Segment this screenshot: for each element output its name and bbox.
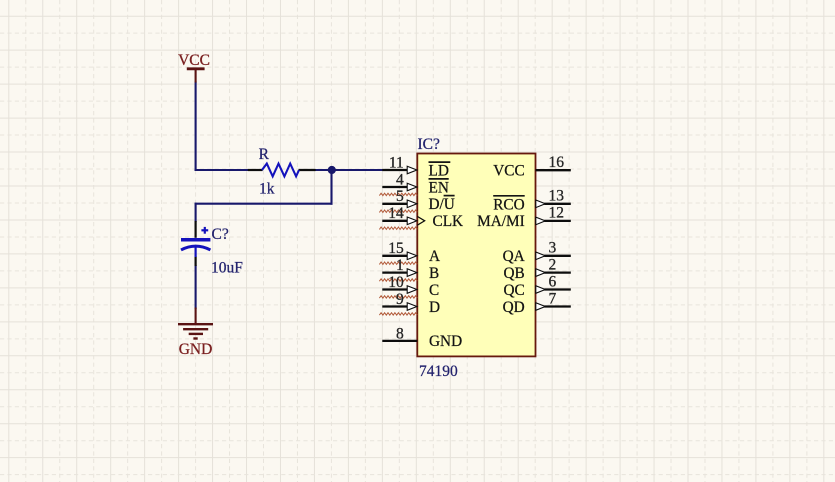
svg-text:10uF: 10uF — [211, 259, 243, 276]
svg-text:15: 15 — [388, 240, 404, 257]
svg-text:4: 4 — [396, 171, 404, 188]
svg-text:2: 2 — [549, 256, 557, 273]
svg-text:12: 12 — [549, 205, 565, 222]
svg-text:LD: LD — [429, 162, 449, 179]
svg-text:QD: QD — [503, 299, 525, 316]
svg-text:1: 1 — [396, 257, 404, 274]
svg-text:VCC: VCC — [178, 52, 210, 69]
svg-text:GND: GND — [179, 341, 213, 358]
svg-text:C?: C? — [212, 226, 229, 243]
svg-text:10: 10 — [388, 274, 404, 291]
svg-text:D: D — [429, 299, 440, 316]
svg-text:11: 11 — [389, 154, 404, 171]
svg-text:QA: QA — [503, 248, 525, 265]
svg-text:5: 5 — [396, 188, 404, 205]
svg-text:MA/MI: MA/MI — [477, 213, 525, 230]
svg-text:6: 6 — [549, 273, 557, 290]
svg-text:74190: 74190 — [419, 363, 458, 380]
svg-text:GND: GND — [429, 333, 462, 350]
svg-text:QB: QB — [503, 265, 524, 282]
svg-text:RCO: RCO — [493, 196, 524, 213]
svg-text:7: 7 — [549, 290, 557, 307]
svg-text:A: A — [429, 248, 440, 265]
svg-text:R: R — [259, 146, 270, 163]
svg-text:EN: EN — [429, 179, 449, 196]
svg-text:8: 8 — [396, 325, 404, 342]
svg-text:D/U: D/U — [429, 196, 455, 213]
svg-text:C: C — [429, 282, 439, 299]
svg-text:CLK: CLK — [433, 213, 464, 230]
svg-text:9: 9 — [396, 291, 404, 308]
svg-text:14: 14 — [388, 205, 404, 222]
svg-text:B: B — [429, 265, 439, 282]
svg-text:3: 3 — [549, 240, 557, 257]
svg-text:IC?: IC? — [418, 136, 441, 153]
svg-text:13: 13 — [549, 188, 565, 205]
svg-text:1k: 1k — [259, 181, 275, 198]
svg-text:QC: QC — [503, 282, 524, 299]
svg-text:16: 16 — [549, 154, 565, 171]
svg-text:VCC: VCC — [493, 163, 524, 180]
